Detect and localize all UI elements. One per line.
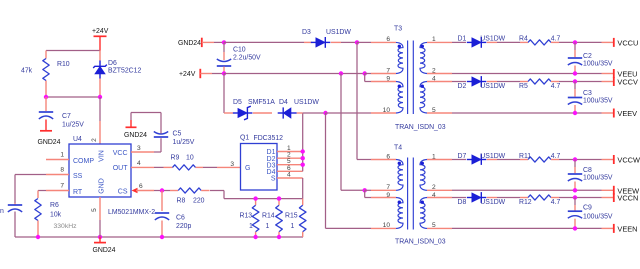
svg-text:4.7: 4.7: [551, 153, 561, 160]
junction C10 top: [222, 40, 226, 44]
svg-text:CS: CS: [118, 189, 128, 196]
svg-text:7: 7: [60, 183, 64, 190]
junction drain3: [301, 163, 305, 167]
wire C6 to rail: [161, 221, 163, 238]
port VCCU: [614, 38, 639, 48]
junction VEEN/C9: [573, 226, 577, 230]
wire CS to R8: [154, 190, 178, 192]
port VEEU: [614, 69, 638, 79]
svg-text:3: 3: [137, 145, 141, 152]
wire D4 to drain node: [297, 112, 326, 114]
svg-text:2.2u/50V: 2.2u/50V: [233, 55, 261, 62]
wire to T4 pin9: [365, 190, 396, 197]
svg-text:1: 1: [291, 223, 295, 230]
capacitor C10: [217, 42, 261, 73]
junction drain1: [301, 149, 305, 153]
svg-text:R11: R11: [519, 153, 531, 160]
svg-text:1: 1: [60, 152, 64, 159]
svg-text:GND24: GND24: [38, 139, 61, 146]
junction VCCU/C2: [573, 40, 577, 44]
svg-text:VEEV: VEEV: [617, 109, 637, 118]
svg-text:10k: 10k: [50, 212, 62, 219]
wire VEEV row: [452, 112, 614, 114]
capacitor C9: [568, 198, 613, 229]
pin 2 VIN label: [91, 138, 98, 142]
svg-text:US1DW: US1DW: [326, 29, 351, 36]
wire C5 to GND24 loop: [131, 113, 161, 134]
svg-text:R13: R13: [240, 212, 253, 219]
wire source down: [302, 178, 304, 199]
zener diode D6: [93, 51, 141, 98]
junction VEEU/C2: [573, 71, 577, 75]
Q1 pin 3 gate label: [230, 161, 234, 168]
junction R6-rail: [36, 235, 40, 239]
wire to T3 pin10: [326, 112, 397, 114]
transformer T3: [383, 26, 446, 132]
power GND24 (above U4): [124, 120, 147, 139]
svg-text:G: G: [245, 165, 250, 172]
diode D8: [452, 192, 506, 206]
resistor R14: [262, 199, 282, 237]
junction U4GND-rail: [98, 235, 102, 239]
wire RT to R6: [38, 191, 46, 199]
svg-text:T4: T4: [394, 145, 402, 152]
svg-text:GND24: GND24: [178, 40, 201, 47]
svg-text:US1DW: US1DW: [480, 153, 505, 160]
svg-text:+24V: +24V: [179, 71, 196, 78]
diode D7: [452, 153, 506, 165]
wire SS cap to rail: [14, 212, 16, 238]
wire to T4 pin7: [365, 189, 396, 191]
pin 1 COMP stub: [46, 152, 69, 160]
svg-text:TRAN_ISDN_03: TRAN_ISDN_03: [395, 239, 446, 246]
wire R8 to S-rail: [201, 191, 303, 199]
resistor R9: [171, 155, 196, 171]
junction VEEW/C8: [573, 188, 577, 192]
port VEEW: [614, 186, 639, 196]
port +24V (left): [179, 69, 200, 78]
svg-text:R12: R12: [519, 199, 532, 206]
junction VCCV/C3: [573, 79, 577, 83]
svg-text:C9: C9: [583, 205, 592, 212]
wire D3 to T3 pin6: [331, 41, 357, 43]
port VEEV: [614, 109, 637, 119]
capacitor C2: [568, 42, 613, 73]
svg-text:+24V: +24V: [92, 28, 109, 35]
junction C10 bottom: [222, 71, 226, 75]
svg-text:US1DW: US1DW: [480, 36, 505, 43]
svg-text:D7: D7: [458, 153, 467, 160]
svg-text:VCCW: VCCW: [617, 156, 640, 165]
svg-text:100u/35V: 100u/35V: [583, 175, 613, 182]
svg-text:LM5021MMX-2: LM5021MMX-2: [108, 209, 155, 216]
wire +24V to D5: [224, 74, 233, 114]
junction VCCN/C9: [573, 195, 577, 199]
svg-text:R8: R8: [177, 198, 186, 205]
wire vertical to T4 pin6: [357, 42, 371, 159]
svg-text:9: 9: [386, 76, 390, 83]
junction R13 bottom: [253, 235, 257, 239]
freq label: [54, 223, 78, 230]
svg-text:VCC: VCC: [113, 150, 128, 157]
svg-text:D4: D4: [279, 99, 288, 106]
wire node R10/D6: [46, 96, 100, 98]
pin 6 CS stub: [132, 183, 155, 193]
capacitor C6: [155, 213, 192, 230]
svg-text:VEEN: VEEN: [617, 225, 637, 234]
junction R13 top: [253, 196, 257, 200]
diode D2: [452, 76, 506, 90]
wire R9 to G: [196, 166, 241, 168]
svg-text:D8: D8: [458, 199, 467, 206]
wire C10 node to D3: [224, 41, 304, 43]
wire GND24 to C10: [202, 41, 224, 43]
wire VEEN row: [452, 227, 614, 229]
wire C6 top lead: [161, 191, 163, 212]
junction VEEV/C3: [573, 111, 577, 115]
resistor R12: [487, 195, 614, 206]
svg-text:R4: R4: [519, 36, 528, 43]
svg-text:100u/35V: 100u/35V: [583, 98, 613, 105]
junction +24V/T3pin7: [363, 71, 367, 75]
wire VCC to C5: [154, 138, 161, 152]
svg-text:4.7: 4.7: [551, 83, 561, 90]
wire pin5 to rail: [99, 220, 101, 237]
svg-text:FDC3512: FDC3512: [254, 135, 284, 142]
junction +24V/T4 branch: [339, 71, 343, 75]
wire +24V to junction: [200, 73, 224, 75]
wire to T4 pin6 stub: [371, 159, 396, 161]
svg-text:US1DW: US1DW: [294, 99, 319, 106]
svg-text:TRAN_ISDN_03: TRAN_ISDN_03: [395, 124, 446, 131]
svg-text:VIN: VIN: [99, 150, 106, 162]
port VEEN: [614, 224, 638, 234]
wire R6 to rail: [37, 221, 39, 238]
svg-text:6: 6: [139, 183, 143, 190]
svg-text:10: 10: [186, 155, 194, 162]
svg-text:47k: 47k: [21, 68, 33, 75]
svg-text:6: 6: [386, 36, 390, 43]
svg-text:US1DW: US1DW: [480, 83, 505, 90]
T3 pin4 stub: [427, 81, 452, 83]
svg-text:100u/35V: 100u/35V: [583, 213, 613, 220]
port GND24 (top): [178, 38, 202, 47]
wire SS net: [15, 175, 46, 204]
svg-text:2: 2: [91, 138, 98, 142]
Q1 drain stubs: [277, 145, 303, 178]
junction C6-rail: [160, 235, 164, 239]
svg-text:Q1: Q1: [240, 135, 249, 142]
svg-text:C10: C10: [233, 47, 246, 54]
resistor R15: [285, 199, 306, 237]
wire to T3 pin7: [365, 73, 396, 75]
transistor Q1 box: [240, 135, 283, 191]
wire D5-D4: [253, 112, 272, 114]
node junction R10 bottom: [44, 95, 48, 99]
svg-text:GND24: GND24: [124, 132, 147, 139]
svg-text:SMF51A: SMF51A: [248, 99, 275, 106]
port VCCN: [614, 193, 639, 203]
capacitor C7: [39, 112, 84, 129]
junction drain2: [301, 156, 305, 160]
svg-text:R15: R15: [285, 212, 298, 219]
svg-text:VCCN: VCCN: [617, 194, 638, 203]
svg-text:4.7: 4.7: [551, 199, 561, 206]
svg-text:GND24: GND24: [93, 247, 116, 254]
svg-text:R10: R10: [57, 61, 70, 68]
svg-text:U4: U4: [73, 136, 82, 143]
wire +24V rail: [224, 73, 365, 75]
tvs diode D5: [233, 99, 275, 120]
T4 pin2 stub: [427, 189, 452, 191]
Q1 source stub: [277, 177, 303, 179]
diode D3: [302, 29, 351, 48]
pin 3 VCC stub: [131, 145, 154, 152]
junction T4 pin7: [363, 188, 367, 192]
resistor R10: [21, 59, 70, 81]
ground GND24 (under C7): [38, 120, 61, 147]
resistor R5: [487, 79, 614, 90]
svg-text:R14: R14: [262, 212, 275, 219]
svg-text:C2: C2: [583, 53, 592, 60]
svg-text:1: 1: [266, 223, 270, 230]
T4 pin4 stub: [427, 197, 452, 199]
svg-text:10: 10: [383, 107, 391, 114]
wire drain to T4 pin10: [326, 113, 397, 228]
port VCCV: [614, 77, 638, 87]
svg-text:D1: D1: [458, 36, 467, 43]
svg-text:1u/25V: 1u/25V: [62, 122, 84, 129]
IC U4 LM5021MMX-2: [69, 136, 155, 216]
svg-text:6: 6: [386, 153, 390, 160]
capacitor C8: [568, 160, 613, 191]
pin 8 SS stub: [46, 167, 69, 175]
T3 pin1 stub: [427, 41, 452, 43]
capacitor C-SS (1n): [0, 203, 22, 215]
svg-text:4: 4: [137, 160, 141, 167]
resistor R4: [487, 36, 614, 45]
svg-text:S: S: [271, 176, 276, 183]
T3 pin2 stub: [427, 73, 452, 75]
svg-text:R9: R9: [171, 155, 180, 162]
svg-text:SS: SS: [73, 173, 83, 180]
junction T3pin6 net: [355, 40, 359, 44]
resistor R10 leads: [45, 51, 47, 98]
svg-text:10: 10: [383, 222, 391, 229]
junction drain/T4: [323, 111, 327, 115]
pin 4 OUT stub: [131, 160, 154, 167]
wire VEEW row: [452, 189, 614, 191]
wire VEEU row: [452, 73, 614, 75]
T4 pin1 stub: [427, 159, 452, 161]
junction CS/C6: [160, 188, 164, 192]
capacitor C5: [154, 131, 195, 147]
svg-text:5: 5: [91, 208, 98, 212]
svg-text:C7: C7: [62, 113, 71, 120]
T3 pin5 stub: [427, 112, 452, 114]
svg-text:COMP: COMP: [73, 158, 94, 165]
svg-text:T3: T3: [394, 26, 402, 33]
port VCCW: [614, 155, 640, 165]
svg-text:BZT52C12: BZT52C12: [108, 68, 141, 75]
capacitor C3: [568, 82, 613, 114]
svg-text:C6: C6: [176, 215, 185, 222]
svg-text:D2: D2: [458, 83, 467, 90]
svg-text:1: 1: [249, 223, 253, 230]
svg-text:OUT: OUT: [113, 165, 129, 172]
svg-text:GND: GND: [99, 178, 106, 194]
node junction D6 bottom: [98, 95, 102, 99]
pin 7 RT stub: [46, 183, 69, 191]
junction R14 bottom: [277, 235, 281, 239]
wire ground rail: [15, 236, 303, 238]
wire drain bus: [302, 113, 304, 171]
wire to T3 pin 6: [357, 41, 396, 43]
diode D1: [452, 36, 506, 48]
svg-text:C8: C8: [583, 167, 592, 174]
ground GND24 (bottom): [93, 237, 116, 254]
svg-text:C3: C3: [583, 90, 592, 97]
svg-text:3: 3: [230, 161, 234, 168]
wire D6 node to VIN pin: [99, 97, 101, 144]
wire +24V to R10 top: [46, 50, 100, 52]
svg-text:VCCU: VCCU: [617, 39, 638, 48]
wire C7 top lead: [45, 97, 47, 111]
svg-text:9: 9: [386, 192, 390, 199]
svg-text:US1DW: US1DW: [480, 199, 505, 206]
svg-text:4.7: 4.7: [551, 36, 561, 43]
diode D4: [278, 99, 320, 119]
resistor R6: [35, 199, 62, 221]
resistor R13: [240, 199, 259, 237]
svg-text:RT: RT: [73, 189, 83, 196]
svg-text:C5: C5: [173, 131, 182, 138]
junction R14 top: [277, 196, 281, 200]
junction VCCW/C8: [573, 157, 577, 161]
svg-text:7: 7: [386, 184, 390, 191]
resistor R11: [487, 153, 614, 162]
wire OUT to R9: [154, 166, 173, 168]
svg-text:D3: D3: [302, 29, 311, 36]
wire +24V down to T4: [341, 74, 365, 191]
svg-text:220: 220: [193, 198, 205, 205]
svg-text:VCCV: VCCV: [617, 78, 638, 87]
resistor R8: [177, 188, 205, 205]
svg-text:D6: D6: [108, 60, 117, 67]
T4 pin5 stub: [427, 227, 452, 229]
power +24V (top): [92, 28, 109, 51]
svg-text:R6: R6: [50, 202, 59, 209]
svg-text:D5: D5: [233, 99, 242, 106]
transformer T4: [383, 145, 446, 246]
svg-text:330kHz: 330kHz: [54, 223, 78, 230]
svg-text:1u/25V: 1u/25V: [173, 139, 195, 146]
svg-text:7: 7: [386, 67, 390, 74]
svg-text:R5: R5: [519, 83, 528, 90]
svg-text:8: 8: [60, 167, 64, 174]
pin 5 GND stub: [91, 197, 100, 220]
wire to T3 pin9: [365, 74, 396, 82]
svg-text:n: n: [0, 208, 4, 215]
svg-text:220p: 220p: [176, 223, 191, 230]
svg-text:100u/35V: 100u/35V: [583, 61, 613, 68]
